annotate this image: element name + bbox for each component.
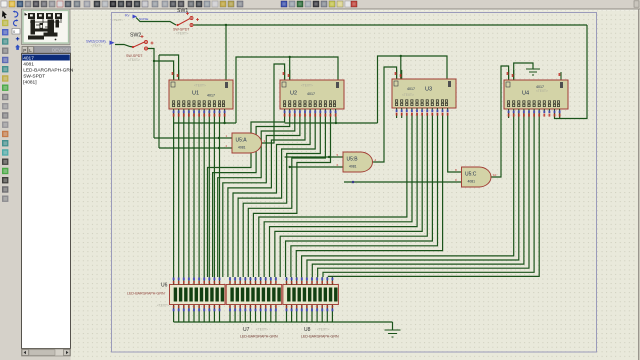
wire LED30 cathode <box>331 305 333 323</box>
wire bridge to U2 top-right pin <box>236 57 338 123</box>
wire U4 Q3 to LED <box>312 113 524 277</box>
junction U5:C input 2 tap <box>352 181 355 184</box>
junction U5:B input 2 <box>289 166 291 168</box>
svg-text:U2: U2 <box>290 91 297 97</box>
wire U3 CO to U5:C input 1 <box>448 113 462 172</box>
wire LED17 cathode <box>260 305 262 323</box>
svg-text:<TEXT>: <TEXT> <box>402 93 414 97</box>
rotate/mirror tool icons <box>15 12 18 17</box>
junction on Q9 column 2 <box>218 147 220 149</box>
wire U5:B out to U3 CLK <box>374 67 397 162</box>
svg-text:RV: RV <box>125 14 130 18</box>
wire LED10 cathode <box>219 305 221 323</box>
wire cathode bus <box>174 321 393 323</box>
ground (U4 reset) <box>526 69 540 75</box>
wire LED23 cathode <box>296 305 298 323</box>
svg-text:U7: U7 <box>243 327 250 333</box>
wire LED22 cathode <box>291 305 293 323</box>
wire U5:A out to U2 CLK <box>262 64 285 143</box>
wire U5:A input 2 <box>159 147 232 149</box>
svg-text:U3: U3 <box>425 87 432 93</box>
svg-text:<TEXT>: <TEXT> <box>157 304 169 308</box>
svg-text:4081: 4081 <box>23 62 34 68</box>
wire U3 Q8 to LED <box>291 113 438 277</box>
LED bargraph U6 <box>170 285 226 305</box>
svg-text:[4081]: [4081] <box>23 80 36 86</box>
wire U3 Q6 to LED <box>280 113 427 277</box>
wire U1 CO stub <box>224 113 226 123</box>
parts list panel <box>22 47 28 54</box>
wire LED1 cathode <box>173 305 175 323</box>
wire U3 Q7 to LED <box>286 113 433 277</box>
wire LED29 cathode <box>326 305 328 323</box>
svg-text:<TEXT>: <TEXT> <box>301 84 313 88</box>
svg-text:4017: 4017 <box>23 56 34 62</box>
wire U1 Q1 to LED <box>178 113 180 277</box>
svg-text:SW2: SW2 <box>130 33 141 39</box>
svg-text:LED-BARGRAPH-GRN: LED-BARGRAPH-GRN <box>23 68 74 74</box>
wire U2 CO stub <box>335 113 337 123</box>
wire U1 Q0 to LED <box>173 113 175 277</box>
wire U1 carry bridge <box>174 122 236 124</box>
wire U1 MR loop <box>159 55 179 80</box>
wire U2 Q8 to LED <box>248 113 325 277</box>
svg-text:<TEXT>: <TEXT> <box>536 89 548 93</box>
wire LED21 cathode <box>286 305 288 323</box>
svg-text:DEVICES: DEVICES <box>52 48 71 53</box>
junction U2 EN tap <box>289 56 291 58</box>
wire U5:C out to U4 CLK <box>491 66 509 177</box>
wire U3 Q3 to LED <box>264 113 412 277</box>
svg-text:<TEXT>: <TEXT> <box>91 44 102 48</box>
wire U4 Q1 to LED <box>302 113 514 277</box>
wire bus to ground <box>392 322 394 330</box>
wire U1 Q5 to LED <box>198 113 200 277</box>
LED bargraph U8 <box>283 285 339 305</box>
switch SW2 SPDT <box>110 33 154 63</box>
svg-text:<TEXT>: <TEXT> <box>317 328 329 332</box>
wire U4 Q5 to LED <box>323 113 534 277</box>
wire U2 Q6 to LED <box>238 113 315 277</box>
wire SW1 output rail <box>197 24 588 26</box>
svg-text:4081: 4081 <box>238 146 246 150</box>
svg-text:L: L <box>29 48 32 53</box>
svg-text:4017: 4017 <box>307 92 315 96</box>
wire LED9 cathode <box>213 305 215 323</box>
wire bridge to U3 top-right pin <box>378 56 448 123</box>
svg-text:<TEXT>: <TEXT> <box>176 32 188 36</box>
svg-text:4081: 4081 <box>349 165 357 169</box>
wire U2 Q9 to LED <box>253 113 330 277</box>
wire U5:B input 2 <box>290 166 343 168</box>
wire LED3 cathode <box>183 305 185 323</box>
svg-text:4017: 4017 <box>207 94 215 98</box>
wire SW2 input feed <box>115 45 133 48</box>
junction SW2 clock node <box>153 60 155 62</box>
junction U2 CO <box>335 122 337 124</box>
wire LED6 cathode <box>198 305 200 323</box>
wire LED27 cathode <box>316 305 318 323</box>
top toolbar icons <box>1 1 7 7</box>
wire LED24 cathode <box>301 305 303 323</box>
wire U5:C input 2 <box>344 181 462 183</box>
svg-text:4017: 4017 <box>407 87 415 91</box>
wire LED15 cathode <box>249 305 251 323</box>
svg-text:<TEXT>: <TEXT> <box>256 328 268 332</box>
wire U1 Q2 to LED <box>183 113 185 277</box>
wire LED14 cathode <box>244 305 246 323</box>
wire U2 Q3 to LED <box>223 113 300 277</box>
svg-text:U4: U4 <box>522 91 529 97</box>
wire LED28 cathode <box>321 305 323 323</box>
junction on Q9 column <box>218 137 220 139</box>
svg-text:LED-BARGRAPH-GRN: LED-BARGRAPH-GRN <box>301 335 339 339</box>
wire LED4 cathode <box>188 305 190 323</box>
svg-text:LED-BARGRAPH-GRN: LED-BARGRAPH-GRN <box>127 292 165 296</box>
wire U4 Q2 to LED <box>307 113 519 277</box>
junction U1 CO <box>223 122 225 124</box>
left mode toolbar <box>2 11 7 19</box>
wire U2 Q0 to LED <box>208 113 285 277</box>
wire U4 Q4 to LED <box>318 113 529 277</box>
svg-text:U5:A: U5:A <box>236 138 248 144</box>
svg-text:10: 10 <box>493 173 497 177</box>
ground (bargraph bus) <box>385 330 401 337</box>
wire U1 Q4 to LED <box>193 113 195 277</box>
wire U3 Q1 stub <box>401 113 403 118</box>
wire SW1 pole to rail <box>193 24 196 26</box>
wire clock to U1 CLK pin <box>154 61 174 80</box>
svg-text:U5:B: U5:B <box>347 157 359 163</box>
svg-text:<TEXT>: <TEXT> <box>128 58 140 62</box>
schematic overview minimap <box>22 9 71 45</box>
wire U2 Q2 to LED <box>218 113 295 277</box>
wire U3 Q5 to LED <box>275 113 422 277</box>
IC U1 4017 counter <box>169 70 233 117</box>
svg-text:<TEXT>: <TEXT> <box>194 84 206 88</box>
wire to U2 EN pin <box>289 57 291 80</box>
wire U1 MR vertical <box>158 55 160 148</box>
wire LED25 cathode <box>306 305 308 323</box>
svg-text:4081: 4081 <box>468 180 476 184</box>
IC U3 4017 counter <box>392 70 456 116</box>
junction rail/U1 <box>225 24 227 26</box>
svg-text:U1: U1 <box>192 91 199 97</box>
wire U1 Q8 to LED <box>213 113 215 277</box>
svg-text:NOISE: NOISE <box>139 17 148 21</box>
wire LED26 cathode <box>311 305 313 323</box>
wire U1 Q3 to LED <box>188 113 190 277</box>
wire U1 Q7 to LED <box>208 113 210 277</box>
junction U3 EN tap <box>400 55 402 57</box>
wire LED16 cathode <box>255 305 257 323</box>
wire SW2 pole out <box>147 49 154 62</box>
wire clock down to U5:A <box>153 61 155 138</box>
wire U3 Q9 to LED <box>296 113 442 277</box>
wire U3 Q2 to LED <box>259 113 407 277</box>
switch SW1 SPDT <box>136 8 199 36</box>
wire U4 Q0 stub <box>508 113 510 118</box>
wire LED7 cathode <box>203 305 205 323</box>
wire LED5 cathode <box>193 305 195 323</box>
wire U2 Q1 to LED <box>213 113 290 277</box>
gate U5:C 4081 AND <box>454 167 501 187</box>
wire U1 Q6 to LED <box>203 113 205 277</box>
wire U2 Q7 to LED <box>243 113 320 277</box>
wire U5:A input 1 <box>154 137 232 139</box>
svg-text:LED-BARGRAPH-GRN: LED-BARGRAPH-GRN <box>240 335 278 339</box>
wire LED12 cathode <box>234 305 236 323</box>
wire U4 Q6 to LED <box>328 113 539 277</box>
wire U3 Q4 to LED <box>270 113 418 277</box>
svg-text:<TEXT>: <TEXT> <box>112 18 123 22</box>
svg-text:SW-SPDT: SW-SPDT <box>23 74 45 80</box>
LED bargraph U7 <box>226 285 282 305</box>
wire SW1 input feed <box>136 18 176 26</box>
gate U5:A 4081 AND <box>224 133 271 153</box>
svg-text:U5:C: U5:C <box>465 172 477 178</box>
wire LED13 cathode <box>239 305 241 323</box>
wire LED8 cathode <box>208 305 210 323</box>
wire U4 MR to ground <box>514 63 533 80</box>
svg-text:P: P <box>23 48 26 53</box>
wire to U3 EN pin <box>400 56 402 79</box>
wire U5:B input 1 <box>285 156 343 158</box>
gate U5:B 4081 AND <box>335 152 382 172</box>
junction U5:B input 1 <box>328 156 330 158</box>
wire rail to U1 top-right pin <box>225 25 227 80</box>
svg-text:U6: U6 <box>161 283 168 289</box>
wire LED19 cathode <box>270 305 272 323</box>
wire LED20 cathode <box>275 305 277 323</box>
IC U4 4017 counter <box>504 70 568 117</box>
wire rail to U4 EN pin <box>555 25 588 119</box>
IC U2 4017 counter <box>280 70 344 117</box>
wire U1 Q9 to LED <box>219 113 221 277</box>
wire LED11 cathode <box>229 305 231 323</box>
svg-text:U8: U8 <box>304 327 311 333</box>
wire U4 CO stub <box>559 113 561 119</box>
wire U3 Q0 stub <box>396 113 398 118</box>
wire U2 Q5 to LED <box>233 113 310 277</box>
wire LED2 cathode <box>178 305 180 323</box>
sheet border <box>112 13 597 353</box>
wire U2 Q4 to LED <box>228 113 305 277</box>
wire U2 carry bridge <box>285 122 378 124</box>
wire LED18 cathode <box>265 305 267 323</box>
